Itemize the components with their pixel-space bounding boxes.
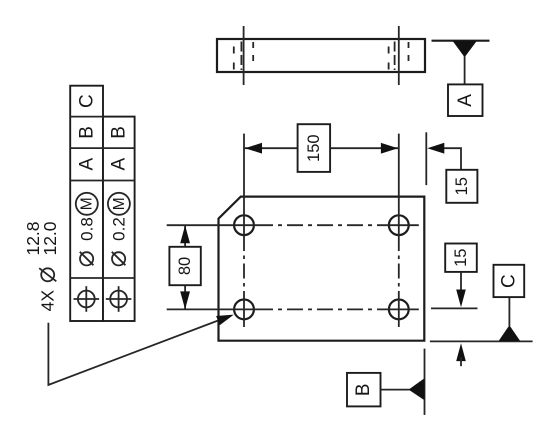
svg-text:A: A bbox=[76, 158, 97, 171]
hole bottom-right bbox=[389, 300, 409, 320]
tolerance 0.2 text bbox=[109, 217, 128, 265]
dimension 15 upper right bbox=[426, 132, 477, 203]
MMC modifier right bbox=[108, 193, 130, 215]
svg-text:C: C bbox=[498, 274, 519, 288]
right hole hidden lines (top view) bbox=[389, 42, 409, 71]
vertical centerline right column bbox=[398, 134, 400, 331]
hole top-left bbox=[234, 215, 254, 235]
horizontal centerline top row bbox=[167, 224, 419, 226]
tolerance 0.8 text bbox=[78, 217, 97, 265]
datum C symbol bbox=[430, 265, 533, 342]
datum reference A right bbox=[109, 158, 130, 171]
left hole centerline (top view) bbox=[243, 26, 245, 85]
svg-text:C: C bbox=[76, 94, 97, 108]
svg-text:B: B bbox=[353, 383, 374, 396]
svg-text:0.8: 0.8 bbox=[78, 217, 97, 241]
svg-text:M: M bbox=[111, 197, 128, 210]
leader line from callout to bottom-left hole bbox=[48, 310, 235, 385]
position symbol right column bbox=[106, 286, 132, 312]
svg-text:150: 150 bbox=[305, 134, 323, 162]
vertical centerline left column bbox=[243, 134, 245, 331]
datum reference B right bbox=[109, 126, 130, 139]
svg-text:A: A bbox=[109, 158, 130, 171]
hole bottom-left bbox=[234, 300, 254, 320]
position symbol left column bbox=[74, 286, 100, 312]
horizontal centerline bottom row bbox=[167, 308, 419, 310]
right hole centerline (top view) bbox=[398, 26, 400, 85]
dimension 150 bbox=[244, 124, 399, 172]
bottom row extension line right bbox=[431, 307, 478, 309]
left hole hidden lines (top view) bbox=[234, 42, 253, 71]
hole callout text 4X dia 12.8/12.0 bbox=[23, 221, 60, 311]
hole top-right bbox=[389, 215, 409, 235]
svg-text:B: B bbox=[76, 126, 97, 139]
datum B symbol bbox=[347, 349, 425, 415]
datum reference C left bbox=[76, 94, 97, 108]
svg-text:80: 80 bbox=[176, 257, 194, 275]
svg-text:12.8: 12.8 bbox=[23, 221, 43, 255]
MMC modifier left bbox=[76, 193, 98, 215]
svg-text:15: 15 bbox=[452, 249, 470, 267]
svg-text:M: M bbox=[79, 197, 96, 210]
svg-text:15: 15 bbox=[453, 177, 471, 195]
datum A symbol bbox=[432, 41, 490, 116]
svg-text:B: B bbox=[109, 126, 130, 139]
svg-text:A: A bbox=[455, 94, 476, 107]
svg-text:0.2: 0.2 bbox=[109, 217, 128, 241]
top view plate outline bbox=[217, 39, 425, 72]
datum reference A left bbox=[76, 158, 97, 171]
dimension 15 lower right bbox=[445, 244, 477, 367]
feature control frame (rotated composite position frame) bbox=[70, 86, 134, 321]
datum reference B left bbox=[76, 126, 97, 139]
front view plate outline with chamfer bbox=[219, 197, 425, 341]
svg-text:4X: 4X bbox=[38, 290, 58, 312]
dimension 80 bbox=[169, 225, 200, 309]
